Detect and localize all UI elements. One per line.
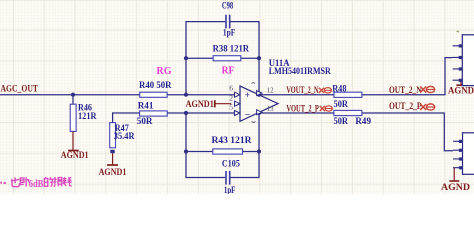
svg-text:R49: R49 [355, 117, 371, 127]
svg-text:12: 12 [267, 86, 274, 95]
svg-text:C98: C98 [222, 1, 234, 11]
svg-text:OUT_2_P: OUT_2_P [389, 102, 422, 112]
svg-text:AGND: AGND [448, 86, 474, 96]
svg-text:AGND1: AGND1 [61, 151, 89, 161]
svg-text:OUT_2_N: OUT_2_N [389, 86, 422, 96]
svg-text:R43 121R: R43 121R [212, 136, 252, 146]
svg-text:+: + [245, 91, 250, 101]
svg-text:VOUT_2_P: VOUT_2_P [286, 105, 319, 115]
svg-text:−: − [245, 111, 250, 121]
svg-text:AGND: AGND [441, 183, 470, 193]
svg-text:50R: 50R [334, 117, 349, 127]
svg-text:VOUT_2_N: VOUT_2_N [286, 86, 318, 96]
svg-text:RG: RG [157, 66, 172, 77]
svg-text:50R: 50R [137, 117, 153, 127]
svg-text:RF: RF [222, 66, 235, 77]
svg-text:6: 6 [229, 83, 233, 92]
svg-text:C105: C105 [222, 159, 240, 169]
svg-text:50R: 50R [334, 100, 349, 110]
svg-text:R40 50R: R40 50R [139, 81, 172, 91]
svg-text:5: 5 [229, 103, 233, 112]
svg-text:1pF: 1pF [223, 28, 236, 38]
svg-text:R38 121R: R38 121R [213, 44, 250, 54]
svg-text:R41: R41 [138, 101, 154, 111]
svg-text:AGND1: AGND1 [186, 100, 215, 110]
svg-text:AGC_OUT: AGC_OUT [1, 84, 39, 94]
svg-text:35.4R: 35.4R [114, 132, 135, 142]
svg-text:13: 13 [267, 104, 274, 113]
svg-text:2: 2 [229, 93, 233, 102]
svg-text:1pF: 1pF [224, 186, 236, 194]
svg-text:AGND1: AGND1 [99, 168, 127, 178]
svg-text:6dB: 6dB [29, 179, 44, 190]
svg-text:LMH5401IRMSR: LMH5401IRMSR [269, 67, 331, 77]
svg-text:121R: 121R [78, 112, 97, 122]
svg-text:R48: R48 [332, 84, 347, 94]
